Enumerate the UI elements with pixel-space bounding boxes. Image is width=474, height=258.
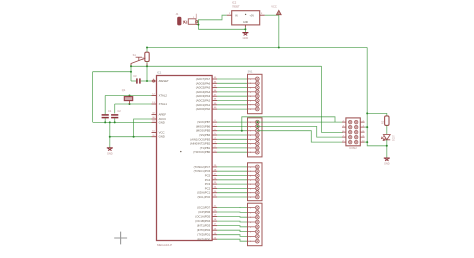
wires port PD to header xyxy=(217,207,248,241)
wire reset rail down to CON2 pin5 xyxy=(322,66,344,132)
wire CON2 pin10 to vertical xyxy=(365,141,368,143)
switch S1 reset button xyxy=(131,53,147,66)
svg-text:IN: IN xyxy=(235,14,238,17)
wire SV2 pin3 to CON2 pin9 xyxy=(257,131,343,142)
svg-text:CON2: CON2 xyxy=(349,146,357,150)
capacitor C1 xyxy=(102,109,112,117)
pin header SV3 xyxy=(248,163,263,201)
wire IC2 OUT to VCC xyxy=(265,14,279,16)
junction J1 ground node xyxy=(197,24,199,26)
svg-text:(SCL)PC0: (SCL)PC0 xyxy=(197,195,210,199)
wire ground run to IC2 GND xyxy=(198,28,245,30)
junction VCC rail at R1 xyxy=(146,47,148,49)
resistor R1 xyxy=(141,52,149,61)
junction R1 bottom xyxy=(146,65,148,67)
junction AVCC drop xyxy=(133,136,135,138)
wire R2 bottom to LED xyxy=(386,125,388,134)
wire left ground vertical xyxy=(92,72,94,122)
svg-text:IC1: IC1 xyxy=(157,70,162,74)
svg-text:(ICP)PD6: (ICP)PD6 xyxy=(198,210,210,214)
svg-text:3: 3 xyxy=(261,13,263,15)
wires port PC to header xyxy=(217,167,248,197)
svg-text:GND: GND xyxy=(243,37,249,40)
ground symbol at IC2 xyxy=(242,33,248,41)
wire C3 left xyxy=(131,80,136,82)
wire reset node down xyxy=(146,66,148,81)
crystal Q1 xyxy=(122,88,133,104)
IC1 right pins port PA xyxy=(196,77,217,111)
svg-text:GND: GND xyxy=(384,163,390,166)
pin header SV4 xyxy=(248,203,263,246)
wire J1 to IC2 IN xyxy=(197,15,227,22)
junction LED ground tie xyxy=(386,145,388,147)
junction C1 ground xyxy=(104,121,106,123)
wire R1 bottom to reset node xyxy=(146,62,148,67)
wire CON2 pin4 to vertical xyxy=(365,126,368,128)
wire C1 top stub xyxy=(104,112,106,115)
wire SV2 pin1 to CON2 pin1 xyxy=(257,121,343,123)
junction lower ground rail xyxy=(109,136,111,138)
svg-text:GND: GND xyxy=(159,135,165,139)
connector J1 power jack xyxy=(176,12,199,25)
junction crystal top xyxy=(129,95,131,97)
wire VCC symbol down to rail xyxy=(278,15,280,47)
svg-text:XTAL2: XTAL2 xyxy=(159,94,168,98)
junction SV2 pin2 xyxy=(256,125,258,127)
wire rail to R1 top xyxy=(146,48,148,53)
wire XTAL1 run xyxy=(115,103,152,105)
wire MOSI over-route xyxy=(242,117,335,131)
svg-text:(ADC0)PA0: (ADC0)PA0 xyxy=(196,107,211,111)
wire VCC rail xyxy=(147,47,367,49)
svg-text:(INT0)PD2: (INT0)PD2 xyxy=(197,228,211,232)
svg-text:Q1: Q1 xyxy=(122,88,126,92)
wires port PB to header xyxy=(217,122,248,152)
svg-text:(RXD)PD0: (RXD)PD0 xyxy=(197,237,211,241)
wire C2 bottom to ground rail xyxy=(114,118,116,122)
LED LED1 xyxy=(381,135,394,142)
junction IC2 GND drop xyxy=(244,28,246,30)
wire C1 bottom to ground rail xyxy=(104,118,106,122)
wire C3 right to /RESET pin xyxy=(141,80,152,82)
junction crystal bottom xyxy=(129,103,131,105)
svg-text:C3: C3 xyxy=(133,74,137,78)
svg-text:(OC2)PD7: (OC2)PD7 xyxy=(197,205,210,209)
pin header SV2 xyxy=(248,118,263,157)
svg-text:(OC1B)PD4: (OC1B)PD4 xyxy=(195,219,210,223)
svg-text:XTAL1: XTAL1 xyxy=(159,102,168,106)
wire ground rail under caps xyxy=(93,121,152,123)
junction VCC rail at regulator feed xyxy=(278,47,280,49)
svg-text:C2: C2 xyxy=(117,109,121,113)
junction MOSI branch xyxy=(241,130,243,132)
supply symbol VCC xyxy=(271,4,281,14)
svg-text:(TXD)PD1: (TXD)PD1 xyxy=(197,233,210,237)
junction C2 ground xyxy=(114,121,116,123)
pin PB0 bullet mark xyxy=(180,151,181,152)
capacitor C3 reset xyxy=(133,74,140,83)
op-amp?? no: microcontroller IC1 MEGA16-P box xyxy=(157,70,213,247)
wire ground branch down to symbol xyxy=(109,122,111,147)
pin header CON2 ISP xyxy=(342,118,365,150)
junction switch left contact xyxy=(130,65,132,67)
wire switch left down to C3 xyxy=(130,66,132,81)
junction SV2 pin1 xyxy=(256,121,258,123)
svg-text:(OC1A)PD5: (OC1A)PD5 xyxy=(195,215,210,219)
wires port PA to header xyxy=(217,79,248,109)
wire crystal right leg down to C2 xyxy=(114,104,116,113)
svg-text:J1: J1 xyxy=(176,12,179,16)
svg-text:+5V: +5V xyxy=(250,14,255,17)
svg-text:7805T: 7805T xyxy=(232,4,240,8)
svg-text:MEGA16-P: MEGA16-P xyxy=(157,243,172,247)
junction CON2 pin4 tie xyxy=(366,126,368,128)
svg-text:(T0/XCK)PB0: (T0/XCK)PB0 xyxy=(193,150,210,154)
wire lower ground rail to IC GND xyxy=(110,136,152,138)
IC1 right pins port PD xyxy=(195,205,217,241)
wire crystal left leg down to C1 xyxy=(104,96,106,114)
junction reset pin row xyxy=(146,80,148,82)
svg-text:(INT1)PD3: (INT1)PD3 xyxy=(197,224,211,228)
wire AVCC to ground rail xyxy=(134,119,152,137)
wire switch ground link xyxy=(93,71,131,73)
capacitor C2 xyxy=(111,109,121,117)
resistor R2 xyxy=(380,116,389,126)
IC1 right pins port PC xyxy=(194,165,217,199)
svg-text:LED1: LED1 xyxy=(392,135,395,142)
wire XTAL2 run xyxy=(105,95,151,97)
svg-text:S1: S1 xyxy=(133,53,137,57)
pin header SV1 xyxy=(248,74,263,113)
wire reset node rail xyxy=(131,65,322,67)
svg-text:C1: C1 xyxy=(108,109,112,113)
junction R2 feed xyxy=(366,112,368,114)
svg-text:AREF: AREF xyxy=(159,113,167,117)
svg-text:GND: GND xyxy=(243,21,249,24)
wire SV2 pin2 to CON2 pin7 xyxy=(257,126,343,137)
wire J1 ground drop xyxy=(197,22,199,30)
ground symbol left xyxy=(107,148,113,156)
svg-text:/RESET: /RESET xyxy=(159,79,169,83)
svg-text:IC2: IC2 xyxy=(232,0,237,4)
junction switch ground link xyxy=(130,71,132,73)
svg-text:1: 1 xyxy=(229,13,231,15)
svg-text:R2: R2 xyxy=(380,120,384,124)
wire IC2 GND to ground symbol xyxy=(244,28,246,33)
junction CON2 pin10 tie xyxy=(366,141,368,143)
ground symbol right xyxy=(384,158,390,166)
junction ground branch xyxy=(109,121,111,123)
sheet origin cross xyxy=(114,232,127,245)
IC1 right pins port PB xyxy=(190,120,217,154)
wire right vertical VCC/GND run xyxy=(367,48,387,146)
svg-text:GND: GND xyxy=(107,153,113,156)
IC1 left pins with names and numbers xyxy=(152,79,169,139)
voltage regulator IC2 7805T xyxy=(227,0,265,27)
svg-text:SV1: SV1 xyxy=(248,70,253,74)
svg-text:VCC: VCC xyxy=(271,4,277,8)
svg-text:GND: GND xyxy=(159,120,165,124)
wire LED to ground xyxy=(386,140,388,158)
wire to R2 top xyxy=(367,113,387,116)
